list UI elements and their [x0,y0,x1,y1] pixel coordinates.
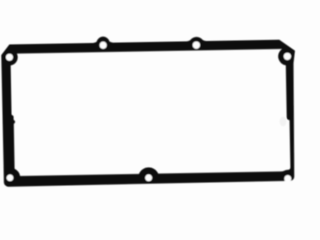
bolt hole top-left [6,54,13,61]
bolt hole bottom-left [7,174,14,181]
gasket body ring [1,33,297,186]
bolt hole bottom-right [284,175,291,182]
bolt hole top B [193,41,201,49]
bolt hole bottom-center [145,174,152,181]
bolt hole top A [99,42,106,49]
bolt hole top-right [284,53,292,61]
faint pressed-boss ghost on right rail [280,117,287,127]
